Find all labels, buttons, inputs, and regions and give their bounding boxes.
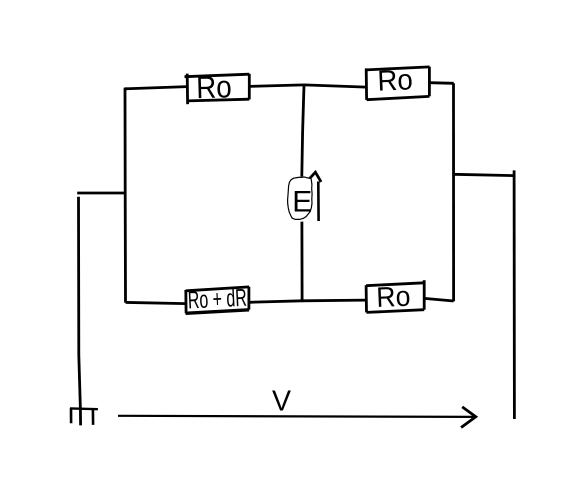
current arrow head xyxy=(310,172,321,182)
voltage arrow V shaft xyxy=(118,416,476,417)
svg-text:Ro: Ro xyxy=(377,64,414,97)
resistor R1 box (Ro, top-left) xyxy=(185,74,250,105)
wire R2 to top-right corner xyxy=(429,81,453,84)
resistor R2 box (Ro, top-right) xyxy=(366,67,430,100)
wire right tap vertical (to V+) xyxy=(513,170,516,419)
voltage arrow V head xyxy=(461,407,476,428)
svg-text:Ro: Ro xyxy=(196,69,232,105)
svg-text:E: E xyxy=(292,186,312,219)
svg-text:V: V xyxy=(272,385,291,417)
wire R3 to node B to R4 xyxy=(249,300,366,302)
wire top-left corner to R1 xyxy=(125,87,187,89)
ground xyxy=(70,408,98,425)
resistor R4 box (Ro, bottom-right) xyxy=(366,280,424,312)
wire right tap horizontal xyxy=(454,174,514,175)
wire left tap horizontal xyxy=(77,192,125,195)
wire right bridge vertical xyxy=(452,83,455,301)
wire left tap vertical (to ground) xyxy=(79,197,81,409)
source E blob outline xyxy=(288,177,313,220)
current arrow shaft (beside E, pointing up) xyxy=(317,182,320,222)
wire source E down to node B (bottom middle) xyxy=(300,222,303,301)
wire bottom-left corner to R3 xyxy=(126,302,187,303)
wire node A to R2 xyxy=(304,85,366,87)
svg-text:Ro: Ro xyxy=(376,280,411,313)
wire left bridge vertical xyxy=(124,88,127,303)
wire R1 to node A (top middle) xyxy=(249,85,304,87)
wire node A down to source E xyxy=(302,85,304,177)
svg-text:Ro + dR: Ro + dR xyxy=(187,285,247,315)
wire R4 to bottom-right corner xyxy=(424,298,453,301)
resistor R3 box (Ro + dR, bottom-left) xyxy=(186,287,250,314)
